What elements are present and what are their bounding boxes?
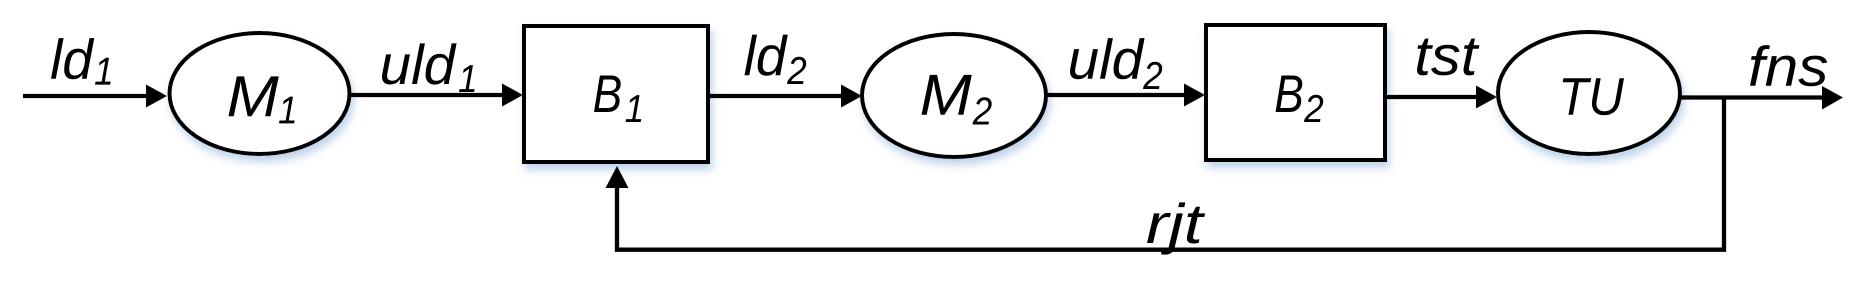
label M2	[922, 75, 992, 125]
wire: feedback from output line down, left, and up into B1 bottom	[617, 98, 1724, 250]
label B2	[1276, 76, 1324, 122]
arrowhead: output	[1822, 86, 1843, 110]
wire: M2 to B2	[1046, 93, 1186, 97]
label uld1	[382, 43, 475, 92]
block B1 (rectangle)	[524, 26, 708, 162]
arrowhead: into M2 left	[841, 85, 862, 108]
label fns	[1750, 45, 1827, 86]
label uld2	[1070, 38, 1162, 89]
wire: B1 to M2	[706, 94, 844, 98]
label ld2	[745, 35, 807, 84]
label M1	[229, 76, 295, 123]
node TU (ellipse)	[1498, 32, 1680, 154]
node M1 (ellipse)	[170, 33, 350, 154]
label ld1	[51, 38, 111, 84]
wire: M1 to B1	[350, 93, 506, 97]
wire: input arrow into M1	[23, 94, 149, 98]
wire: TU to output	[1680, 95, 1824, 99]
node M2 (ellipse)	[862, 34, 1046, 157]
arrowhead: input into M1	[146, 85, 167, 108]
arrowhead: into TU left	[1476, 86, 1497, 109]
label TU	[1563, 78, 1624, 115]
label rjt	[1147, 202, 1205, 254]
arrowhead: into B2 left	[1184, 84, 1205, 107]
arrowhead: into B1 left	[502, 84, 523, 107]
block B2 (rectangle)	[1206, 25, 1385, 160]
label tst	[1417, 39, 1479, 76]
arrowhead: feedback up into B1	[606, 166, 629, 188]
wire: B2 to TU	[1385, 95, 1477, 99]
label B1	[594, 76, 641, 122]
